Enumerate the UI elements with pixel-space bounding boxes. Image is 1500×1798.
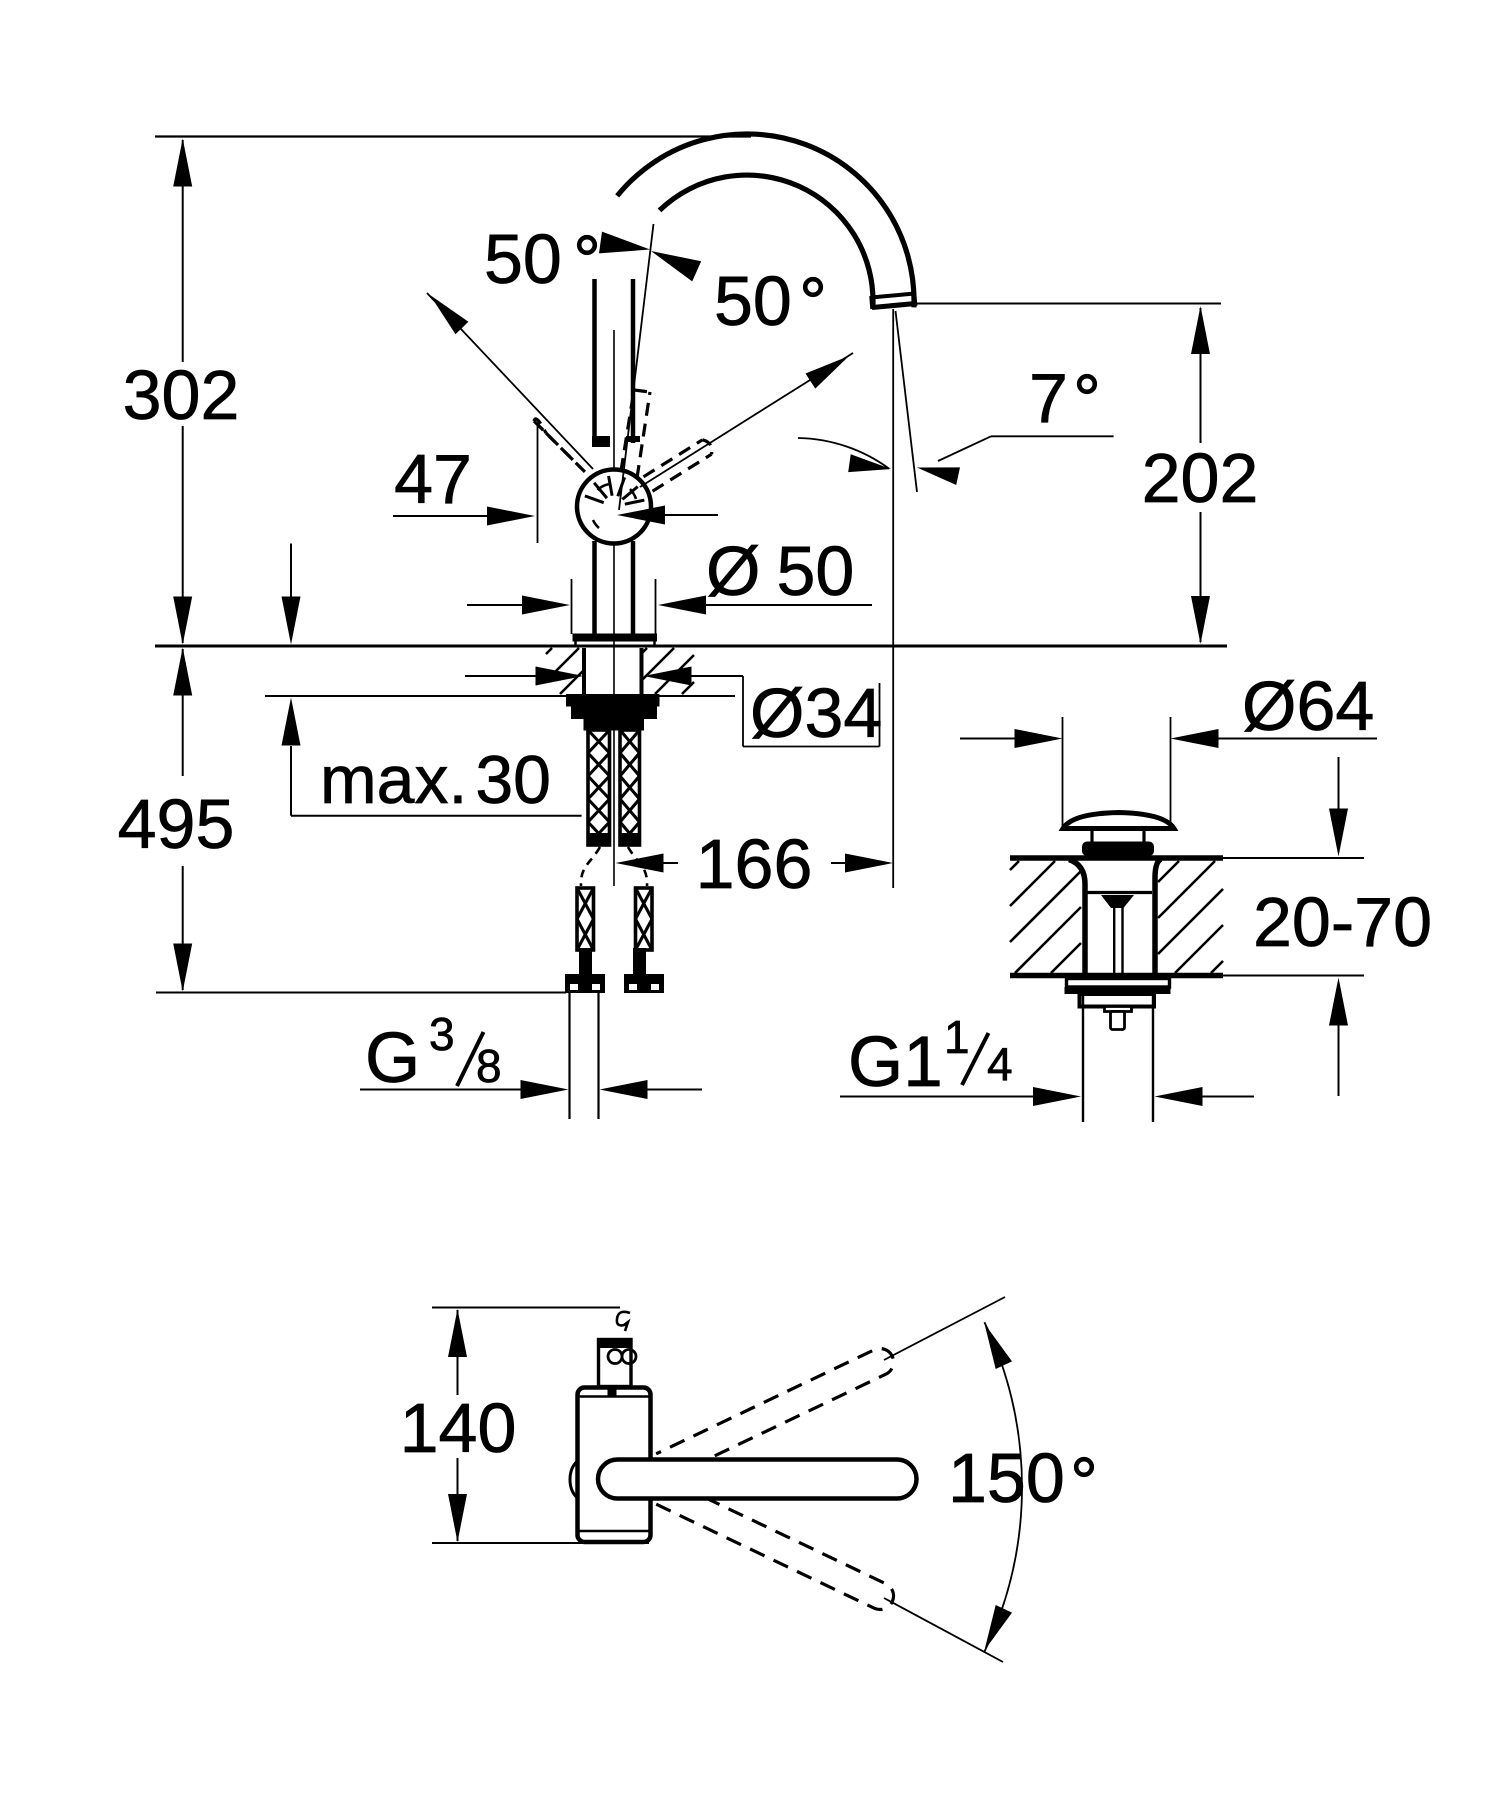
faucet axis center line bbox=[613, 330, 615, 886]
svg-text:495: 495 bbox=[118, 785, 235, 863]
dimension D50 arrows bbox=[467, 604, 524, 606]
counter cross-section hatching right bbox=[642, 648, 647, 653]
max.30 dimension arrows bbox=[290, 544, 292, 598]
svg-text:7: 7 bbox=[1029, 359, 1068, 437]
drain tailpipe bbox=[1082, 994, 1084, 1122]
handle attachment black mark left bbox=[592, 436, 610, 447]
dimension D34 arrows bbox=[465, 675, 538, 677]
drain counter hatching left bbox=[1010, 861, 1019, 870]
threaded stud upper right bbox=[620, 730, 640, 845]
150 deg arc bbox=[984, 1322, 1022, 1652]
svg-text:50: 50 bbox=[484, 220, 562, 298]
svg-text:47: 47 bbox=[394, 440, 472, 518]
countertop line bbox=[155, 645, 1227, 648]
dimension D64 line and arrows bbox=[960, 738, 1015, 740]
dimension 495 vertical line bbox=[182, 649, 184, 776]
drain lock nut bbox=[1080, 994, 1155, 1007]
plan body outline bbox=[578, 1388, 651, 1543]
hose tube below bbox=[568, 993, 570, 1119]
base flange plate bbox=[573, 634, 658, 642]
stud foot right bbox=[633, 948, 646, 976]
plan pivot bump bbox=[570, 1462, 577, 1498]
svg-text:Ø34: Ø34 bbox=[750, 674, 882, 752]
faucet body tube right wall bbox=[631, 279, 636, 443]
drain counter hatching right bbox=[1158, 861, 1179, 882]
dimension 20-70 vertical line bbox=[1338, 757, 1340, 809]
svg-text:Ø64: Ø64 bbox=[1242, 667, 1374, 745]
ball joint cartridge fan detail bbox=[585, 496, 604, 503]
handle lever right 50 deg position (dashed) bbox=[653, 454, 712, 491]
drain counter bottom line bbox=[1010, 973, 1223, 979]
dimension D50 extension lines bbox=[571, 579, 573, 634]
drain cap dome bbox=[1063, 813, 1174, 829]
drain body funnel right wall bbox=[1155, 859, 1161, 974]
plan swivel angle leg lower bbox=[884, 1598, 1003, 1662]
svg-text:202: 202 bbox=[1142, 439, 1259, 517]
drain cap neck bbox=[1090, 831, 1093, 842]
dimension 140 vertical line bbox=[457, 1310, 459, 1395]
svg-text:4: 4 bbox=[987, 1038, 1013, 1090]
spout arc inner wall bbox=[660, 175, 873, 306]
svg-text:50: 50 bbox=[714, 262, 792, 340]
dimension 166 arrows bbox=[616, 854, 664, 873]
pop-up pin bbox=[1105, 1007, 1132, 1012]
7 deg leader bbox=[991, 435, 1114, 437]
washer stack under counter bbox=[566, 694, 660, 707]
svg-text:166: 166 bbox=[696, 825, 813, 903]
50 deg angle leg right bbox=[640, 353, 853, 487]
max.30 lower reference line bbox=[265, 695, 735, 697]
counter cross-section hatching left bbox=[546, 648, 552, 654]
dimension G1 1/4 line and arrows bbox=[840, 1096, 1033, 1098]
drain counter top line bbox=[1010, 855, 1223, 861]
lower rod left bbox=[577, 888, 594, 950]
lower rod right bbox=[636, 888, 653, 950]
svg-text:Ø50: Ø50 bbox=[706, 532, 854, 610]
drain O-ring band bbox=[1082, 842, 1154, 857]
plan spout tip bbox=[599, 1340, 632, 1387]
spout aerator end cap bbox=[871, 294, 915, 298]
D64 extension lines bbox=[1062, 717, 1064, 826]
hose end reference line bbox=[156, 992, 566, 994]
drain inner shoulder bbox=[1086, 891, 1152, 894]
7 deg angle arc bbox=[798, 438, 889, 469]
faucet body tube left wall bbox=[592, 279, 597, 440]
handle lever middle position (dashed) bbox=[621, 390, 634, 471]
plan squiggle mark bbox=[617, 1312, 630, 1331]
drain inner funnel bbox=[1101, 895, 1134, 908]
dimension 202 vertical line bbox=[1200, 308, 1202, 443]
svg-text:302: 302 bbox=[123, 356, 240, 434]
pop-up rod bbox=[1113, 908, 1115, 976]
svg-text:1: 1 bbox=[944, 1011, 970, 1063]
handle attachment black mark right bbox=[626, 436, 640, 442]
dimension G3/8 line and arrows bbox=[360, 1089, 522, 1091]
svg-text:max.30: max.30 bbox=[320, 742, 551, 818]
drain body funnel left wall bbox=[1069, 860, 1085, 975]
plan swivel angle leg upper bbox=[884, 1297, 1005, 1360]
handle lever left 50 deg position (dashed) bbox=[534, 421, 580, 467]
top reference line (spout height) bbox=[155, 135, 751, 137]
threaded stud upper left bbox=[588, 730, 610, 845]
mounting nut below counter bbox=[582, 648, 586, 694]
hose fitting left bbox=[579, 948, 592, 976]
handle ball joint circle bbox=[577, 470, 651, 544]
spout arc outer wall bbox=[617, 134, 914, 307]
plan bottom reference line bbox=[432, 1542, 649, 1544]
50 deg angle leg middle bbox=[619, 224, 654, 510]
plan swivel dashed lever upper bbox=[656, 1348, 893, 1478]
plan swivel dashed lever lower bbox=[656, 1480, 893, 1610]
svg-text:G1: G1 bbox=[848, 1023, 943, 1102]
svg-text:G: G bbox=[365, 1019, 420, 1098]
50 deg angle leg left bbox=[427, 293, 593, 469]
svg-text:140: 140 bbox=[400, 1389, 517, 1467]
hose break dashed curve left bbox=[581, 847, 600, 886]
drain lock flange bbox=[1067, 979, 1170, 988]
dimension 302 vertical line bbox=[182, 140, 184, 362]
plan top reference line bbox=[432, 1307, 620, 1309]
outlet vertical reference line bbox=[892, 309, 894, 888]
svg-text:3: 3 bbox=[429, 1008, 455, 1060]
svg-text:20-70: 20-70 bbox=[1253, 883, 1432, 961]
plan solid lever bbox=[598, 1460, 917, 1499]
hose break dashed curve right bbox=[628, 847, 647, 886]
svg-text:8: 8 bbox=[476, 1040, 502, 1092]
dimension 202 extension line bbox=[914, 303, 1221, 305]
svg-text:150: 150 bbox=[948, 1439, 1065, 1517]
dimension 47 line and arrows bbox=[393, 515, 488, 517]
7 deg tilted outlet line bbox=[896, 311, 918, 492]
D34 leader and box bbox=[692, 675, 744, 677]
